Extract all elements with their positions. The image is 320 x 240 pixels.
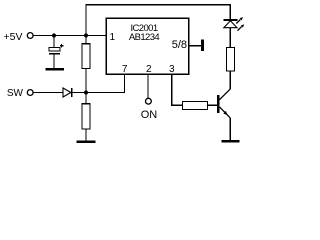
svg-text:+5V: +5V bbox=[4, 31, 23, 43]
wire emitter to ground bbox=[229, 118, 231, 140]
LED arrow 1 bbox=[236, 17, 243, 24]
IC U1 IC2001 AB1234 bbox=[106, 18, 188, 74]
LED D2 bbox=[223, 20, 237, 28]
junction SW node bbox=[84, 90, 88, 94]
ground under Q1 emitter bbox=[221, 140, 239, 143]
wire +5V rail to pin 1 bbox=[33, 35, 106, 37]
resistor R3 base resistor bbox=[182, 102, 207, 110]
terminal SW bbox=[27, 90, 33, 96]
IC pin 7 number bbox=[122, 64, 128, 75]
svg-text:1: 1 bbox=[110, 32, 116, 43]
wire base resistor to Q1 base bbox=[208, 104, 217, 106]
IC pin 3 number bbox=[169, 64, 175, 75]
svg-text:SW: SW bbox=[7, 88, 24, 99]
svg-text:ON: ON bbox=[141, 109, 158, 121]
capacitor C1 polarity + mark bbox=[60, 44, 63, 47]
transistor Q1 bbox=[217, 89, 230, 118]
wire pin 3 to base resistor bbox=[172, 74, 183, 105]
wire riser and top rail to LED bbox=[86, 5, 230, 36]
junction at capacitor bbox=[52, 33, 56, 37]
svg-text:AB1234: AB1234 bbox=[129, 32, 160, 43]
resistor R2 pull-down bbox=[82, 93, 90, 141]
node SW label bbox=[7, 88, 24, 99]
wire collector riser bbox=[229, 71, 231, 89]
wire diode to pin 7 corner bbox=[72, 74, 125, 93]
pin 5/8 end bar bbox=[201, 40, 204, 51]
ground under capacitor bbox=[45, 68, 64, 71]
resistor R1 pull-up bbox=[82, 36, 90, 93]
resistor R4 LED resistor bbox=[226, 28, 234, 71]
LED arrow 2 bbox=[238, 24, 245, 31]
IC pin 5/8 number bbox=[172, 39, 187, 51]
terminal ON bbox=[146, 98, 152, 104]
node +5V label bbox=[4, 31, 23, 43]
ground under R2 bbox=[77, 140, 96, 143]
svg-text:5/8: 5/8 bbox=[172, 39, 187, 51]
svg-text:2: 2 bbox=[146, 64, 152, 75]
junction at rail riser bbox=[84, 33, 88, 37]
node ON label bbox=[141, 109, 158, 121]
IC pin 1 number bbox=[110, 32, 116, 43]
diode D1 bbox=[63, 88, 72, 97]
svg-text:3: 3 bbox=[169, 64, 175, 75]
wire SW to diode bbox=[33, 92, 63, 94]
svg-text:7: 7 bbox=[122, 64, 128, 75]
IC pin 2 number bbox=[146, 64, 152, 75]
capacitor C1 (electrolytic) bbox=[49, 36, 60, 68]
wire pin 2 to ON terminal bbox=[147, 74, 149, 98]
terminal +5V bbox=[27, 33, 33, 39]
pin 5/8 stub wire bbox=[189, 45, 202, 47]
